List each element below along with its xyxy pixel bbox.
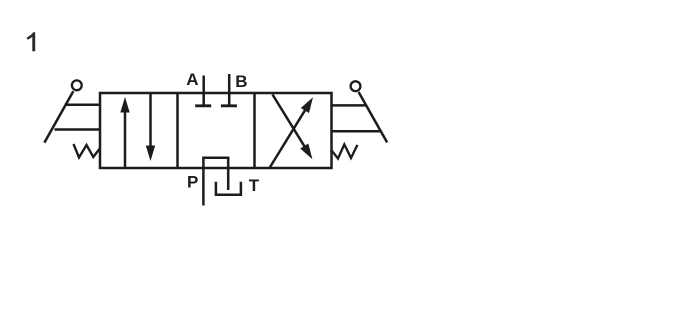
port A line	[202, 76, 205, 106]
right lever lower push rod	[331, 130, 381, 133]
position divider middle/right	[253, 93, 256, 168]
right position crossed flow path (top-left to bottom-right arrow)	[273, 95, 313, 160]
svg-text:B: B	[235, 72, 247, 91]
right lever upper push rod	[331, 104, 367, 107]
left position down arrow	[146, 94, 155, 161]
svg-text:T: T	[249, 176, 260, 195]
left lever arm	[44, 91, 73, 142]
left lever roller knob	[72, 80, 82, 90]
P to T bypass bridge (center position) with P port line	[203, 158, 228, 206]
position divider left/middle	[176, 93, 179, 168]
port B line	[228, 74, 231, 106]
left position up arrow	[120, 97, 129, 167]
port A blocked bar	[195, 104, 211, 107]
right position crossed flow path (bottom-left to top-right arrow)	[270, 97, 313, 167]
right return spring	[332, 144, 358, 158]
svg-text:P: P	[187, 172, 198, 191]
valve body outer box	[100, 93, 332, 168]
left lever lower push rod	[55, 128, 101, 131]
right lever arm	[359, 92, 388, 142]
left return spring	[74, 144, 100, 158]
left lever upper push rod	[65, 103, 101, 106]
svg-text:A: A	[186, 70, 198, 89]
tank T symbol (cup)	[216, 182, 241, 195]
port B blocked bar	[221, 104, 237, 107]
right lever roller knob	[351, 81, 361, 91]
label 1 (figure number)	[27, 32, 36, 51]
